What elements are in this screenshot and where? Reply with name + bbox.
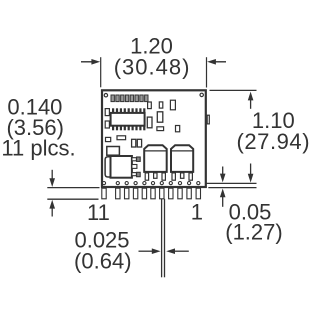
capacitor C1 crimp line (144, 150, 167, 152)
svg-text:(30.48): (30.48) (114, 54, 191, 79)
IC U1 bottom pins (112, 126, 145, 131)
svg-text:11 plcs.: 11 plcs. (1, 136, 75, 161)
chip component left of IC (lower) (105, 121, 109, 128)
arrow left (points right at left extension line) (81, 59, 100, 65)
chip component R6 (horizontal) (157, 127, 164, 131)
small box above inductor (107, 147, 120, 156)
arrow left toward pin (0.025 right) (166, 248, 189, 254)
inductor L1 body (111, 156, 132, 178)
extension line top right for height dimension (210, 89, 257, 91)
arrow right toward pin (0.025 left) (139, 248, 161, 254)
arrow down of 0.140 pin length dimension (49, 170, 55, 187)
chip component below IC (horizontal) (117, 136, 126, 140)
long pin 5 sides (162, 199, 165, 277)
arrow up (top of 1.10 dimension) (248, 92, 254, 109)
svg-text:1: 1 (191, 200, 203, 225)
chip component R4 (157, 112, 163, 122)
chip component R7 (176, 126, 180, 132)
tab on right edge (207, 115, 209, 124)
chip component below IC (small square) (106, 137, 111, 141)
arrow up of 0.05 standoff dimension (220, 189, 226, 207)
arrow down (bottom of 1.10 dimension) (248, 164, 254, 183)
seating plane upper line (201, 182, 256, 184)
extension line right of top dimension (206, 57, 208, 87)
inductor L1 top lead (132, 157, 140, 161)
seating plane lower line (208, 187, 256, 189)
inductor L1 bottom lead (132, 172, 140, 176)
arrow up of 0.140 pin length dimension (49, 200, 55, 217)
extension line pin tip (left) (47, 198, 98, 200)
capacitor C1 leads (145, 173, 165, 180)
svg-text:(0.64): (0.64) (74, 249, 131, 274)
extension line left of top dimension (100, 57, 102, 87)
svg-text:(1.27): (1.27) (225, 220, 282, 245)
extension line pin top (left) (47, 187, 99, 189)
pins P11..P1 (short) (102, 188, 201, 199)
chip component left of IC (upper) (105, 109, 109, 116)
chip component R1 right of IC (148, 102, 152, 109)
chip component R5 (147, 117, 152, 128)
chip component R3 (170, 100, 175, 110)
inductor L1 end cap (105, 157, 110, 177)
inductor L1 middle lead (132, 165, 137, 169)
capacitor C2 body (171, 145, 193, 172)
mounting hole top left (104, 94, 107, 97)
chip component pair left vertical (132, 139, 136, 147)
svg-text:(27.94): (27.94) (237, 129, 310, 154)
capacitor C2 leads (172, 173, 192, 180)
IC U1 body (111, 113, 145, 126)
chip component pair right vertical (137, 139, 141, 147)
capacitor C2 crimp line (171, 150, 193, 152)
svg-text:11: 11 (87, 200, 110, 225)
arrow right (points left at right extension line) (207, 59, 226, 65)
capacitor C1 body (144, 145, 167, 172)
chip component R2 (159, 102, 163, 108)
header pad row (8 pads) (111, 95, 148, 102)
arrow down of 0.05 standoff dimension (220, 167, 226, 183)
pin holes row (11 holes) (102, 182, 199, 185)
mounting hole top right (200, 93, 203, 96)
module body outline (102, 90, 206, 187)
IC U1 top pins (112, 108, 145, 113)
